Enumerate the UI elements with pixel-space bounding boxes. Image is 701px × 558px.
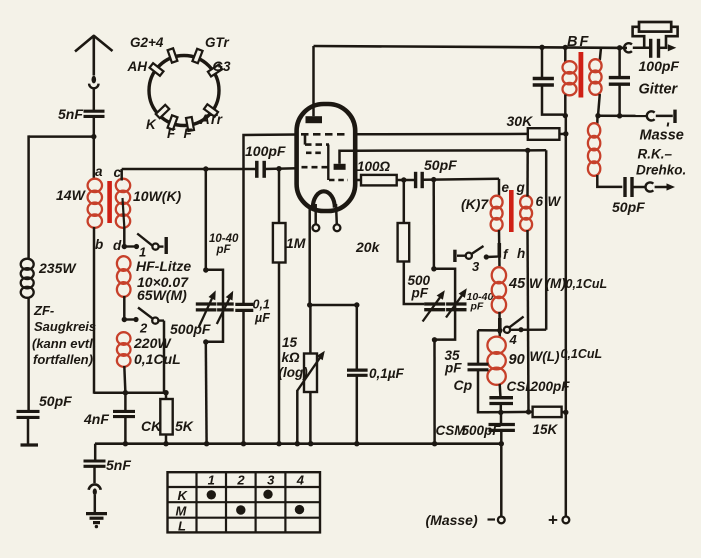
wire anode top bbox=[314, 46, 628, 48]
capacitor 100pF (grid) bbox=[255, 161, 259, 178]
svg-text:CSL: CSL bbox=[507, 379, 534, 394]
svg-text:g: g bbox=[516, 180, 526, 195]
wire diode to feedback bbox=[356, 149, 528, 152]
transformer T2 coil e-f bbox=[491, 196, 503, 209]
svg-text:2: 2 bbox=[236, 473, 245, 488]
node BF coil left top bbox=[563, 45, 568, 50]
wire down to transformer a bbox=[93, 137, 96, 180]
antenna plug connector bbox=[92, 76, 97, 84]
svg-text:5K: 5K bbox=[175, 418, 194, 434]
svg-text:1M: 1M bbox=[286, 235, 306, 251]
svg-text:fortfallen): fortfallen) bbox=[33, 352, 93, 367]
wire right loop to rail bbox=[433, 340, 436, 444]
svg-text:0,1CuL: 0,1CuL bbox=[566, 277, 608, 291]
trimmer capacitor 500pF right bbox=[424, 302, 445, 305]
trimmer 10-40 right arrow bbox=[446, 292, 465, 318]
resistor 30K bbox=[528, 128, 560, 140]
node cathode right bbox=[354, 302, 359, 307]
terminal plus bbox=[563, 517, 570, 524]
switch 1 bbox=[124, 245, 135, 247]
rail junction dots bbox=[123, 441, 128, 446]
svg-text:235W: 235W bbox=[38, 260, 77, 276]
svg-text:ATr: ATr bbox=[199, 112, 223, 127]
wire d lead bbox=[123, 198, 125, 227]
svg-text:5nF: 5nF bbox=[58, 106, 83, 122]
tube diode plate bbox=[334, 164, 346, 170]
node d bbox=[122, 244, 127, 249]
svg-text:15K: 15K bbox=[533, 422, 559, 437]
transformer T1 core bbox=[107, 181, 112, 223]
tube grid A bend bbox=[304, 134, 307, 144]
node BF right bottom bbox=[595, 113, 600, 118]
node 1M bbox=[276, 166, 281, 171]
wire 100R to 50pF bbox=[397, 179, 415, 182]
wire 220W down bbox=[124, 366, 125, 393]
wire cathode node bbox=[310, 304, 357, 307]
capacitor 50pF RK bbox=[623, 177, 626, 197]
svg-text:100pF: 100pF bbox=[639, 58, 680, 74]
trimmer capacitor 10-40pF bbox=[217, 302, 234, 305]
svg-text:+: + bbox=[548, 511, 558, 530]
node h join bbox=[526, 409, 531, 414]
transformer T1 secondary coil 10W(K) bbox=[116, 179, 130, 192]
svg-text:W: W bbox=[529, 276, 543, 291]
tube pin right bbox=[334, 224, 341, 231]
capacitor 0,1uF second bbox=[356, 305, 359, 370]
pot wiper arrow bbox=[297, 356, 321, 391]
svg-text:200pF: 200pF bbox=[530, 379, 571, 394]
capacitor 5nF (ground) bbox=[84, 459, 106, 462]
tube grid row A bbox=[301, 133, 348, 136]
wire grid corner branch bbox=[244, 135, 298, 305]
capacitor 50pF (ZF) bbox=[17, 410, 40, 413]
node trimmer loop bottom bbox=[203, 339, 208, 344]
wire trimmer branch bbox=[205, 169, 208, 270]
tap bar f bbox=[497, 243, 501, 258]
svg-text:1: 1 bbox=[208, 473, 215, 488]
svg-text:(M): (M) bbox=[546, 276, 567, 291]
transformer T1 primary coil 14W bbox=[88, 179, 102, 192]
wire feedback riser bbox=[545, 150, 548, 330]
transformer BF primary bbox=[564, 47, 567, 62]
svg-text:50pF: 50pF bbox=[424, 157, 457, 173]
svg-text:0,1: 0,1 bbox=[253, 298, 270, 312]
svg-text:3: 3 bbox=[472, 259, 480, 274]
svg-text:4nF: 4nF bbox=[83, 411, 109, 427]
ground plug connector bbox=[93, 467, 96, 484]
svg-text:µF: µF bbox=[254, 311, 270, 325]
transformer T2 core bbox=[509, 190, 514, 232]
wire g lead bbox=[526, 150, 529, 196]
switch 2 bbox=[124, 318, 134, 320]
svg-text:2: 2 bbox=[139, 321, 148, 336]
svg-text:c: c bbox=[114, 165, 122, 180]
node 5K junction bbox=[163, 390, 168, 395]
svg-text:500pF: 500pF bbox=[170, 321, 211, 337]
coil 235W (ZF-Saugkreis) bbox=[21, 259, 34, 270]
svg-text:90: 90 bbox=[509, 352, 525, 368]
plug RK bbox=[645, 182, 653, 191]
trimmer capacitor 500pF bbox=[196, 302, 217, 305]
node BF left bottom bbox=[563, 113, 568, 118]
ground bbox=[86, 512, 107, 515]
svg-text:a: a bbox=[95, 164, 103, 179]
svg-text:14W: 14W bbox=[56, 187, 87, 203]
node tap 4 bbox=[497, 328, 502, 333]
svg-text:R.K.–: R.K.– bbox=[638, 147, 673, 162]
resistor 100R bbox=[361, 175, 397, 186]
svg-text:45: 45 bbox=[508, 276, 526, 292]
trimmer 500pF arrow bbox=[199, 295, 214, 327]
coil 90W bbox=[487, 337, 505, 354]
svg-text:b: b bbox=[95, 237, 103, 252]
wire f segment bbox=[498, 230, 501, 268]
wire 100pF to tube bbox=[265, 167, 297, 170]
svg-text:W: W bbox=[548, 194, 562, 209]
svg-text:GTr: GTr bbox=[205, 35, 230, 50]
coil 45W bbox=[492, 267, 506, 283]
svg-text:220W: 220W bbox=[133, 335, 172, 351]
tube socket pin diagram bbox=[149, 56, 219, 126]
resistor 5K bbox=[165, 393, 168, 399]
svg-text:pF: pF bbox=[470, 301, 484, 313]
svg-text:F: F bbox=[167, 126, 176, 141]
wire h lead bbox=[528, 230, 529, 412]
node e-wire bbox=[431, 177, 436, 182]
node g bbox=[525, 148, 530, 153]
wire to 4nF bbox=[124, 393, 127, 412]
node antenna junction bbox=[91, 134, 96, 139]
wire right trimmer loop bbox=[434, 269, 455, 340]
tube filament bbox=[313, 191, 335, 208]
wire trimmer loop to rail bbox=[205, 342, 208, 444]
tube grid right link bbox=[327, 145, 329, 180]
tube grid row B bbox=[305, 143, 329, 146]
node 30K right bbox=[563, 131, 568, 136]
node right cap bottom bbox=[617, 113, 622, 118]
svg-text:Masse: Masse bbox=[640, 128, 684, 144]
wire 0,1uF to rail bbox=[242, 311, 245, 444]
tube grid row D bbox=[302, 166, 332, 169]
capacitor 5nF (antenna) bbox=[84, 110, 105, 113]
capacitor CSM 500pF bbox=[500, 412, 503, 424]
tube filament legs bbox=[314, 204, 317, 224]
svg-text:(K)7: (K)7 bbox=[461, 196, 489, 212]
node cathode left bbox=[307, 302, 312, 307]
wire B+ vertical bbox=[565, 116, 568, 517]
tube pin left bbox=[313, 224, 320, 231]
svg-text:Cp: Cp bbox=[454, 377, 473, 393]
svg-text:kΩ: kΩ bbox=[282, 350, 301, 365]
svg-text:Saugkreis: Saugkreis bbox=[34, 319, 96, 334]
svg-text:K: K bbox=[146, 117, 157, 132]
svg-text:pF: pF bbox=[444, 361, 462, 376]
tube V1 envelope bbox=[297, 104, 356, 211]
svg-text:e: e bbox=[502, 180, 510, 195]
wire 50pF to e bbox=[424, 179, 500, 180]
antenna bbox=[75, 36, 113, 52]
svg-text:AH: AH bbox=[127, 59, 148, 74]
node trimmer top bbox=[203, 166, 208, 171]
coil HF-Litze bbox=[117, 256, 131, 271]
svg-text:(kann evtl.: (kann evtl. bbox=[32, 336, 96, 351]
wire ZF branch down bbox=[27, 135, 30, 259]
wire 35pF top bbox=[478, 329, 500, 332]
capacitor 0,1uF first bbox=[235, 303, 253, 306]
capacitor 4nF bbox=[113, 410, 135, 413]
tube anode lead bbox=[312, 46, 315, 116]
wire rail to 5nF bbox=[94, 444, 97, 461]
node 15K right bbox=[563, 410, 568, 415]
svg-text:G3: G3 bbox=[213, 59, 232, 74]
svg-text:0,1CuL: 0,1CuL bbox=[134, 351, 181, 367]
tube diode lead bbox=[340, 151, 356, 164]
svg-text:65W(M): 65W(M) bbox=[137, 287, 187, 303]
node trimmer loop top bbox=[203, 267, 208, 272]
node 20k bbox=[401, 177, 406, 182]
node rail masse bbox=[499, 441, 504, 446]
wire tube to 100R bbox=[356, 179, 362, 182]
svg-text:W(L): W(L) bbox=[530, 349, 560, 364]
svg-text:pF: pF bbox=[216, 244, 232, 256]
potentiometer 15k log bbox=[309, 305, 312, 354]
wire grid A to 30K bbox=[356, 133, 528, 136]
node 4nF junction bbox=[123, 390, 128, 395]
svg-text:50pF: 50pF bbox=[612, 199, 645, 215]
svg-text:4: 4 bbox=[296, 473, 305, 488]
svg-text:K: K bbox=[178, 488, 189, 503]
wire 45W to tap4 bbox=[498, 312, 501, 338]
svg-text:d: d bbox=[113, 238, 122, 253]
resistor 15K bbox=[533, 407, 562, 417]
svg-text:4: 4 bbox=[509, 332, 518, 347]
svg-text:20k: 20k bbox=[355, 239, 381, 255]
node switch 2 bbox=[122, 317, 127, 322]
svg-text:3: 3 bbox=[267, 473, 275, 488]
wire masse horizontal bbox=[598, 114, 646, 117]
trimmer 10-40pF arrow bbox=[217, 295, 231, 324]
node right loop top bbox=[431, 266, 436, 271]
wire ZF to 50pF bbox=[27, 297, 30, 411]
svg-text:500pF: 500pF bbox=[462, 423, 502, 438]
wire right trimmer branch bbox=[432, 180, 435, 269]
wire c to grid wire bbox=[120, 169, 123, 181]
tube anode plate bbox=[306, 116, 323, 123]
wire CSx node bbox=[478, 411, 533, 414]
svg-text:(Masse): (Masse) bbox=[426, 512, 478, 528]
tube grid row E bbox=[329, 179, 348, 182]
svg-text:L: L bbox=[178, 519, 186, 534]
svg-text:F: F bbox=[184, 126, 193, 141]
node BF right cap bbox=[617, 45, 622, 50]
svg-text:100pF: 100pF bbox=[245, 143, 286, 159]
svg-text:ZF-: ZF- bbox=[33, 303, 54, 318]
coil RK bbox=[596, 116, 599, 124]
wire HF to switch 2 bbox=[123, 296, 126, 320]
svg-text:Drehko.: Drehko. bbox=[636, 163, 686, 178]
terminal (Masse) bbox=[500, 444, 503, 517]
wire e lead bbox=[498, 179, 501, 197]
node CSL bottom bbox=[498, 410, 503, 415]
capacitor 35pF Cp bbox=[477, 330, 480, 364]
band selection table bbox=[168, 472, 321, 532]
svg-text:CK: CK bbox=[141, 418, 162, 434]
wire cathode return b bbox=[94, 391, 166, 394]
tap bar switch 4 bbox=[498, 318, 502, 333]
svg-text:50pF: 50pF bbox=[39, 393, 72, 409]
svg-text:30K: 30K bbox=[507, 113, 534, 129]
transformer BF core bbox=[579, 52, 584, 98]
svg-text:G2+4: G2+4 bbox=[130, 35, 164, 50]
coil 220W bbox=[117, 332, 131, 345]
wire to ZF branch bbox=[29, 135, 94, 138]
svg-text:HF-Litze: HF-Litze bbox=[136, 258, 191, 274]
svg-text:10W(K): 10W(K) bbox=[133, 188, 182, 204]
wire 4nF to rail bbox=[124, 417, 127, 444]
svg-text:5nF: 5nF bbox=[106, 457, 131, 473]
svg-text:M: M bbox=[176, 504, 188, 519]
wire 90W to CSL bbox=[498, 384, 501, 398]
capacitor CSL 200pF bbox=[489, 396, 513, 399]
tube cathode lead down bbox=[308, 205, 311, 305]
svg-text:pF: pF bbox=[411, 286, 429, 301]
svg-text:Gitter: Gitter bbox=[639, 82, 679, 98]
plug Masse bbox=[647, 111, 655, 120]
plug Gitter bbox=[624, 43, 632, 52]
tube grid row C bbox=[306, 152, 323, 155]
jack housing bbox=[639, 22, 671, 32]
node BF cap left bbox=[539, 45, 544, 50]
svg-text:100Ω: 100Ω bbox=[357, 159, 391, 174]
svg-text:0,1µF: 0,1µF bbox=[369, 366, 405, 381]
capacitor 50pF coupling bbox=[414, 172, 417, 188]
trimmer 500pF right arrow bbox=[423, 294, 443, 322]
node right loop bottom bbox=[432, 337, 437, 342]
svg-text:BF: BF bbox=[567, 34, 590, 50]
bottom rail bbox=[95, 442, 501, 445]
capacitor BF right bbox=[618, 48, 621, 78]
svg-text:(log): (log) bbox=[279, 365, 309, 380]
switch 3 bbox=[453, 250, 456, 262]
svg-text:15: 15 bbox=[282, 335, 298, 350]
wire b down bbox=[93, 227, 96, 394]
wire 50pF stub bbox=[27, 418, 30, 444]
transformer BF secondary bbox=[600, 48, 601, 60]
svg-text:h: h bbox=[517, 246, 525, 261]
capacitor 100pF Gitter bbox=[633, 47, 650, 50]
capacitor BF left bbox=[541, 47, 544, 78]
end bar 50pF bbox=[21, 443, 39, 446]
transformer T2 coil g-h bbox=[520, 196, 532, 209]
svg-text:6: 6 bbox=[536, 194, 544, 209]
wire trimmer loop bbox=[206, 270, 223, 342]
resistor 1M bbox=[278, 169, 281, 223]
switch 4 bbox=[504, 327, 510, 333]
trimmer capacitor 10-40pF right bbox=[446, 302, 466, 305]
resistor 20k bbox=[403, 180, 406, 223]
